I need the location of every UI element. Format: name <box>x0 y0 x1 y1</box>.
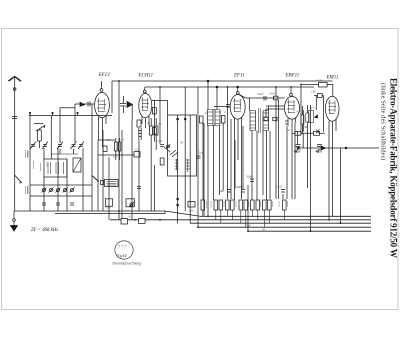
resistor below ECH11 <box>137 120 141 127</box>
bus B3 <box>190 222 371 224</box>
resistor box 0,1 <box>134 152 140 158</box>
tuner top line <box>29 115 112 117</box>
svg-text:50: 50 <box>158 122 162 126</box>
osc inner vertical b <box>184 87 186 176</box>
F horizontals <box>98 139 115 141</box>
tuner vertical V75 <box>74 108 76 142</box>
cap C6 <box>42 203 46 205</box>
svg-text:Lst.: Lst. <box>124 209 130 213</box>
wire y148 to edge <box>296 147 379 149</box>
diode plates EBF11 <box>285 121 289 124</box>
tuner vertical V67 <box>66 159 68 211</box>
junction dots <box>118 80 341 232</box>
IFT1 leads <box>207 126 209 217</box>
trimmer T1 <box>42 188 47 193</box>
osc coil 1 <box>175 159 179 170</box>
svg-text:50pF: 50pF <box>257 92 264 96</box>
svg-text:150: 150 <box>45 162 49 167</box>
tuner stubs on top line <box>30 112 78 116</box>
resistor row with leads <box>201 200 286 210</box>
svg-text:15nF: 15nF <box>276 185 283 189</box>
tube ECH11 <box>139 87 152 128</box>
F vertical x103 <box>102 130 104 211</box>
trimmer T2 <box>49 188 54 193</box>
EBF11 grid feed wires <box>266 106 285 117</box>
svg-text:5nF: 5nF <box>219 189 224 193</box>
resistor Rr1 <box>301 115 304 124</box>
resistor pair top F <box>115 142 118 151</box>
svg-text:(linke Seite des Schaltbildes): (linke Seite des Schaltbildes) <box>380 83 387 160</box>
svg-text:Eg44: Eg44 <box>116 253 127 258</box>
cap G1 <box>227 190 231 193</box>
trimmer T5 <box>70 188 75 193</box>
inline box bus 2 <box>139 219 146 224</box>
svg-text:50: 50 <box>262 227 266 231</box>
bus B2 <box>110 219 371 221</box>
svg-text:EF13: EF13 <box>98 73 111 78</box>
G verticals <box>230 119 232 199</box>
cap to chassis 2 <box>317 145 322 147</box>
bus B1 <box>200 215 371 217</box>
resistor R-a <box>150 126 154 135</box>
svg-text:1M: 1M <box>311 90 316 94</box>
svg-text:EBF11: EBF11 <box>285 74 300 79</box>
svg-text:20: 20 <box>128 215 132 219</box>
svg-text:100: 100 <box>157 139 162 143</box>
oscillator big box <box>168 115 197 176</box>
switch contacts osc <box>164 147 178 157</box>
IFT1 left cap <box>200 116 204 123</box>
resistor row lower leads <box>203 210 284 227</box>
osc junction dots <box>177 118 179 120</box>
small box on cap wire <box>274 96 279 100</box>
svg-text:2nF: 2nF <box>199 151 204 155</box>
svg-text:7 7 7: 7 7 7 <box>118 245 127 250</box>
tube EF11 <box>230 87 245 200</box>
IF transformer 2 <box>250 108 269 133</box>
cap C8 <box>70 203 74 205</box>
anode line EBF11-EM11 <box>292 132 325 134</box>
cap row above oscillator <box>160 145 164 147</box>
switch S2 <box>92 176 99 182</box>
svg-text:50nF: 50nF <box>236 185 243 189</box>
svg-text:5000: 5000 <box>26 151 30 158</box>
tuner vertical V51 <box>50 116 52 160</box>
resistor below EBF11 <box>295 131 301 135</box>
svg-text:EF11: EF11 <box>233 74 245 79</box>
band switch cluster <box>34 124 45 132</box>
wave switch S1 <box>15 175 22 183</box>
tube EF13 <box>95 81 110 147</box>
small box left of osc <box>160 158 164 165</box>
trimmer T3 <box>56 188 61 193</box>
grid lead with coupling cap into EF13 <box>60 104 94 108</box>
trimmer cross <box>316 130 320 134</box>
tall vertical between tubes <box>118 81 120 220</box>
oscillator trimmer between tubes <box>120 96 133 120</box>
F vertical x139 <box>138 140 140 211</box>
svg-text:20: 20 <box>147 121 151 125</box>
svg-text:10000: 10000 <box>26 186 30 194</box>
trimmer Lst <box>129 202 134 207</box>
F vertical x155 <box>154 100 156 211</box>
resistor R-b <box>155 126 159 135</box>
svg-text:2M: 2M <box>303 125 308 129</box>
pot EM11 <box>309 111 314 123</box>
F vertical x122 <box>121 130 123 220</box>
tuner vertical V92 <box>91 104 93 211</box>
tuner vertical V30 <box>29 116 31 212</box>
IFT1 right cap <box>222 116 226 124</box>
svg-text:Stromlaufzeichnung: Stromlaufzeichnung <box>112 261 141 265</box>
below-box verticals <box>177 176 179 223</box>
svg-text:303: 303 <box>189 209 194 213</box>
antenna coil box <box>44 159 67 177</box>
cap 50pF <box>264 96 266 101</box>
F vertical x109 <box>108 157 110 220</box>
resistor row value labels <box>207 201 288 208</box>
F vertical x198 <box>197 87 199 227</box>
bus B5 <box>248 230 371 232</box>
EM11 feed resistor <box>319 83 328 88</box>
cap G2 <box>241 190 245 193</box>
pot box <box>126 199 134 207</box>
inline box bus 1 <box>121 219 128 224</box>
F vertical x204 <box>203 123 205 216</box>
tuner vertical V44 <box>43 148 45 211</box>
small coil box <box>38 130 42 141</box>
tiny box pair under grid feed <box>264 117 268 120</box>
tube EBF11 <box>285 87 300 199</box>
cap G4 <box>281 190 285 193</box>
svg-text:50pF: 50pF <box>246 175 253 179</box>
svg-text:10nF: 10nF <box>269 92 276 96</box>
bus B4 <box>198 226 371 228</box>
svg-text:1M: 1M <box>106 138 111 142</box>
top rail 1 <box>112 80 333 82</box>
osc inner vertical c <box>189 115 191 176</box>
svg-text:EM11: EM11 <box>326 76 339 81</box>
svg-text:5nF: 5nF <box>246 223 251 227</box>
svg-text:ZF = 468 kHz: ZF = 468 kHz <box>31 228 58 233</box>
cap C7 <box>56 203 60 205</box>
tuner horizontal H196 <box>30 195 92 197</box>
right verticals <box>300 85 302 136</box>
IFT1 risers to rails <box>208 81 217 110</box>
IFT1 to EF11 grid link <box>214 106 230 108</box>
resistor on x155 lower <box>153 128 157 134</box>
cap to chassis 1 <box>296 145 301 147</box>
small box left of coil <box>101 181 104 185</box>
coil below ECH11 <box>139 128 141 140</box>
bus diagonal <box>165 211 200 216</box>
component value micro-labels <box>105 79 323 213</box>
top cap wire EF11-EBF11 <box>239 95 284 99</box>
tuner vertical V83 <box>82 148 84 211</box>
cap G3 <box>250 179 254 182</box>
svg-text:Lst.: Lst. <box>112 155 118 159</box>
tuner link line y154 <box>51 153 78 155</box>
IFT2 leads <box>251 131 253 201</box>
box 303 <box>188 202 195 208</box>
resistor 1M <box>317 94 322 98</box>
F vertical x160 <box>159 87 161 144</box>
bus micro labels <box>128 215 266 232</box>
junction dots osc lower <box>177 198 179 200</box>
trimmer T4 <box>63 188 68 193</box>
coil box right of bandfilter <box>73 158 81 172</box>
value labels tuner <box>26 150 41 194</box>
bus line A1 <box>14 210 165 212</box>
IF transformer 1 <box>208 110 221 126</box>
stamp <box>115 241 133 259</box>
link ECH11 to osc box <box>152 101 168 115</box>
chassis arrows under caps <box>296 149 320 152</box>
resistor Rr2 <box>306 113 309 122</box>
trimmer cap row (variable caps) <box>30 142 84 150</box>
osc inner vertical a <box>177 115 179 176</box>
tuner vertical V58 <box>57 148 59 211</box>
antenna <box>9 77 22 211</box>
bandfilter coil box F <box>105 180 119 187</box>
svg-text:50: 50 <box>287 128 291 132</box>
tube EM11 <box>325 96 339 150</box>
svg-text:15: 15 <box>224 111 228 115</box>
resistor on anode line 2 <box>314 132 320 136</box>
svg-text:10: 10 <box>205 111 209 115</box>
grid cap left of EF11 <box>226 105 230 108</box>
small box x105 <box>103 146 107 152</box>
F vertical x132 <box>131 120 133 220</box>
tuner horizontal H185 <box>30 184 92 186</box>
top rail 2 <box>145 86 314 88</box>
svg-text:ECH11: ECH11 <box>138 74 154 79</box>
resistor 5000 box <box>106 199 113 206</box>
svg-text:50: 50 <box>180 141 184 145</box>
ground (chassis) <box>11 211 18 231</box>
F vertical x98 <box>97 140 99 211</box>
bus line A2 <box>55 211 165 214</box>
cap pair x199 <box>197 156 201 158</box>
svg-text:5000: 5000 <box>105 206 112 210</box>
cap dot x139 <box>137 187 141 189</box>
resistor on x155 upper <box>153 108 157 115</box>
osc coil 2 <box>186 159 190 172</box>
svg-text:Elektro-Apparate-Fabrik, Köppe: Elektro-Apparate-Fabrik, Köppelsdorf 912… <box>389 78 399 258</box>
tuner vertical V60 <box>59 108 61 144</box>
